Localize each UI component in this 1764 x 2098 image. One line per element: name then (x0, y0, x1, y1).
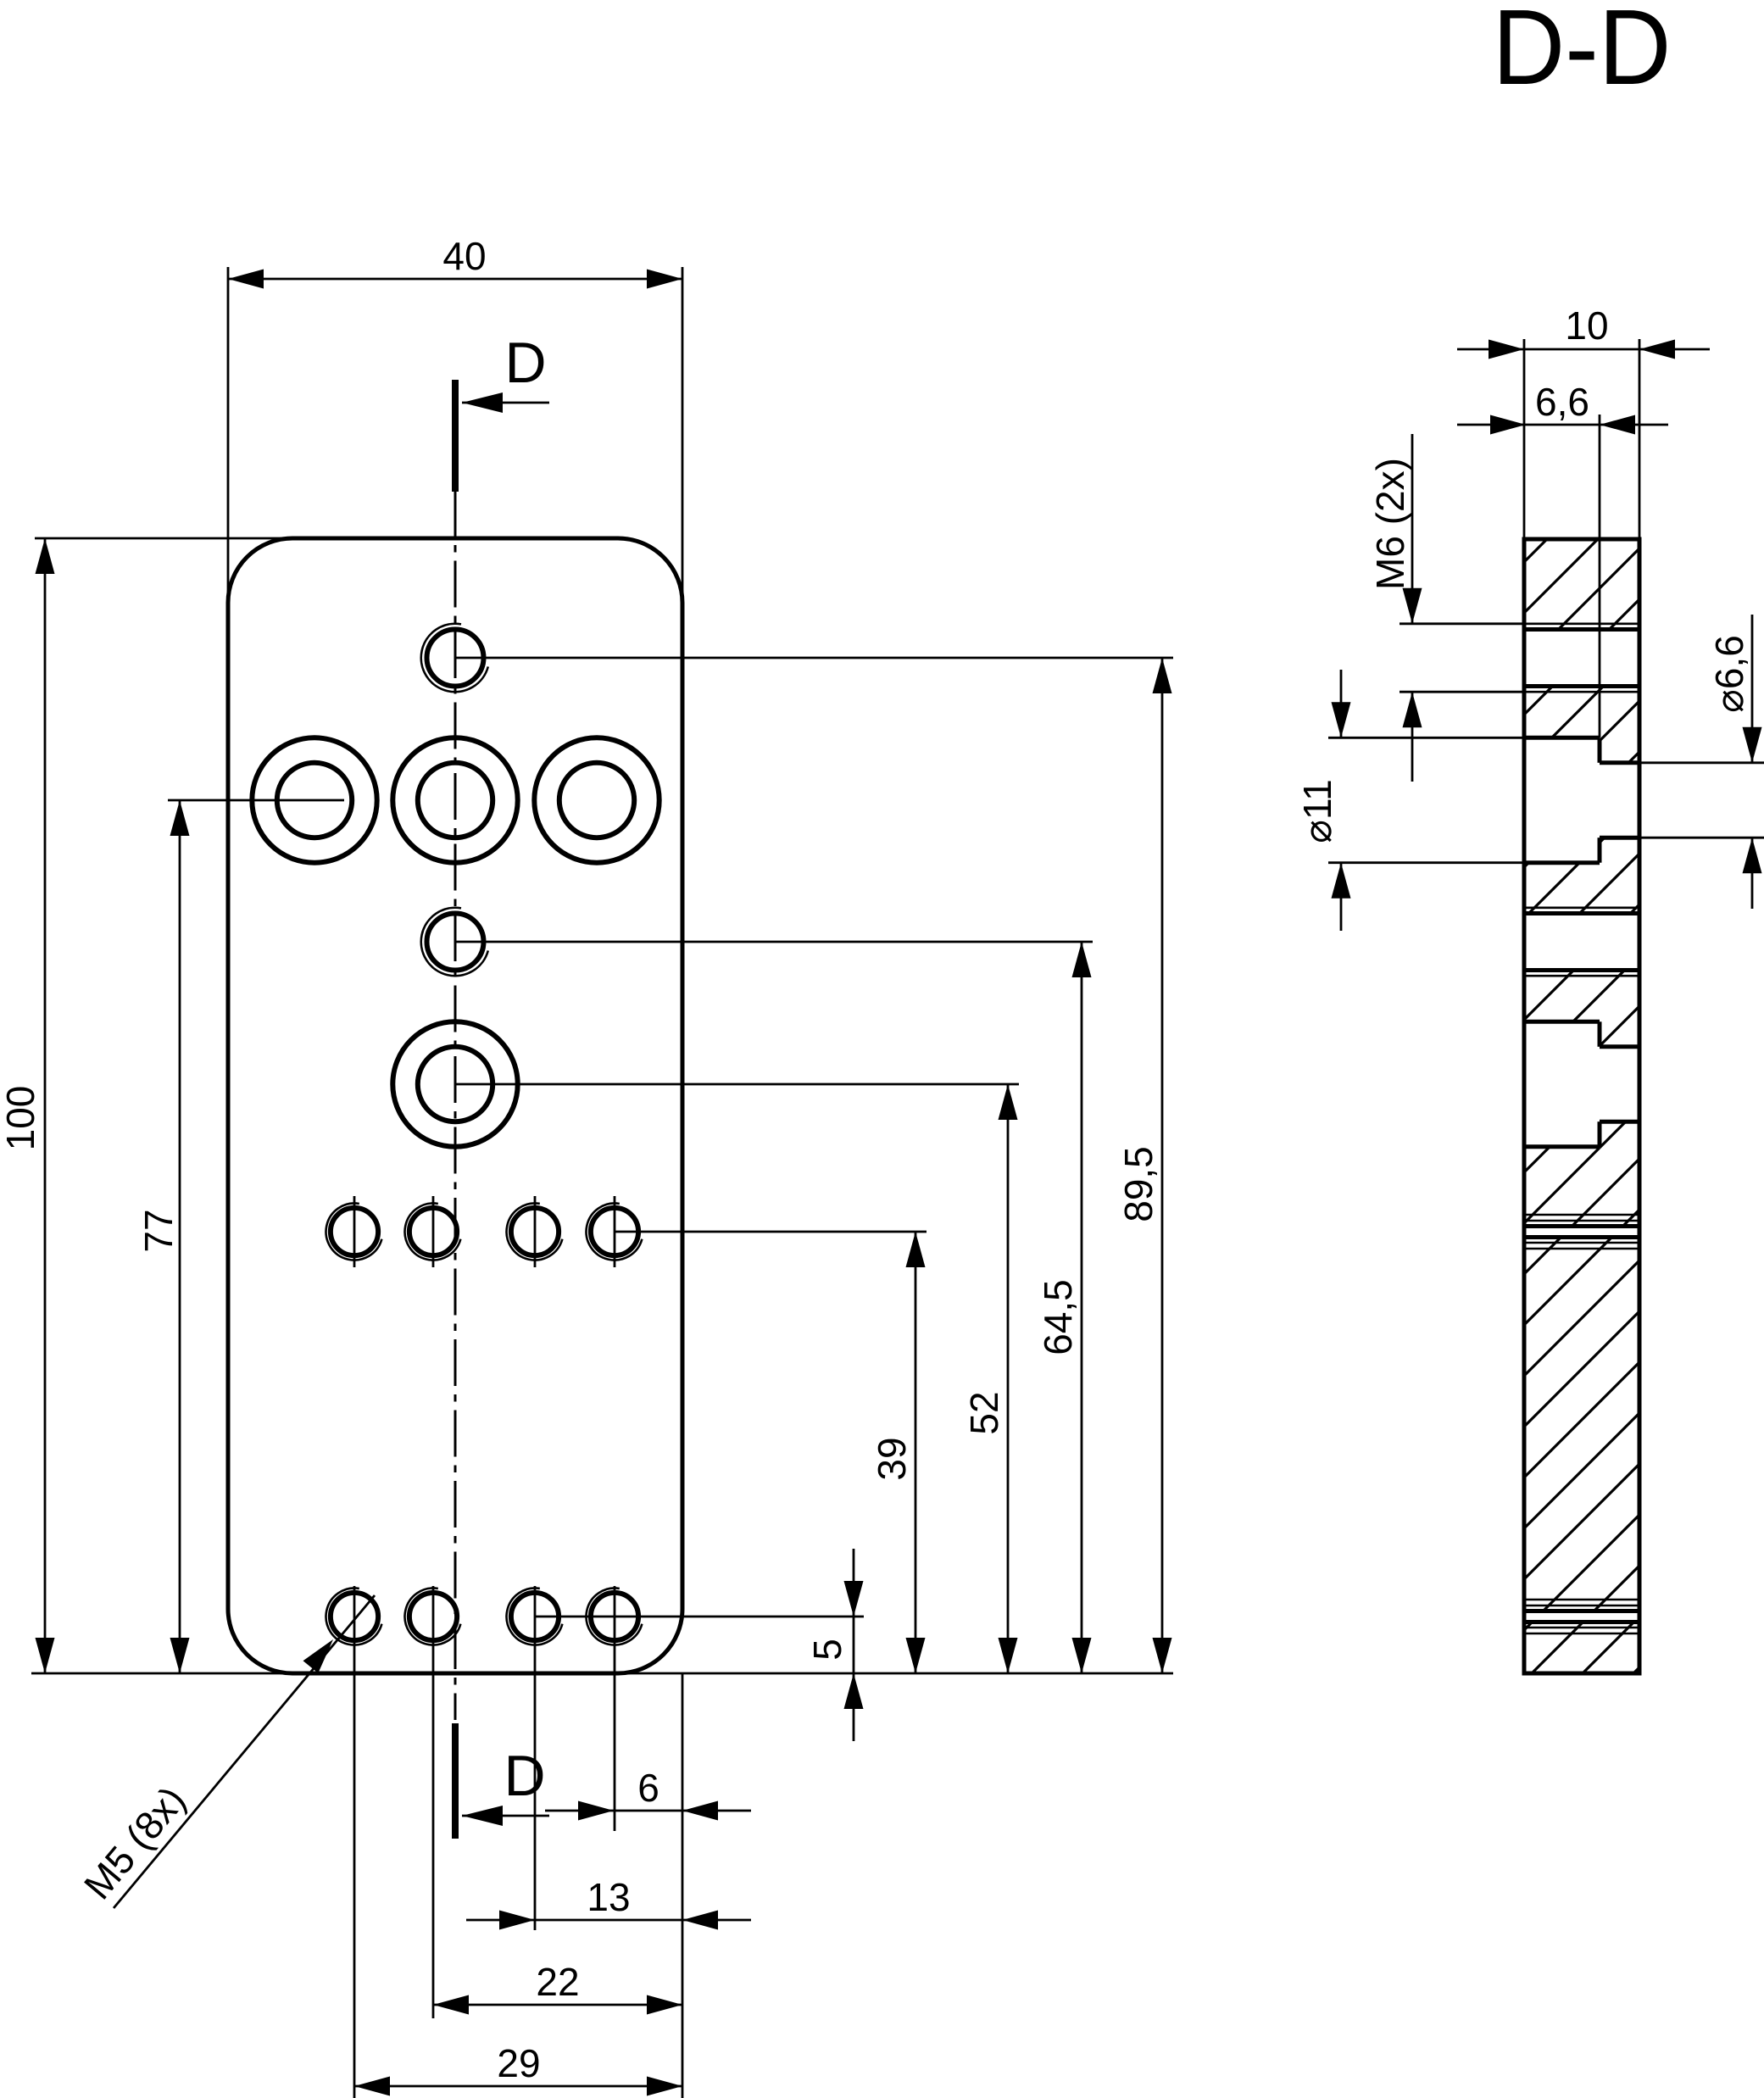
svg-text:6,6: 6,6 (1535, 380, 1589, 424)
svg-text:10: 10 (1565, 303, 1608, 348)
svg-text:77: 77 (136, 1209, 181, 1252)
svg-text:52: 52 (962, 1391, 1006, 1434)
svg-text:89,5: 89,5 (1116, 1146, 1160, 1222)
svg-text:39: 39 (870, 1437, 914, 1480)
svg-text:⌀11: ⌀11 (1295, 779, 1339, 843)
svg-text:40: 40 (442, 234, 486, 278)
svg-text:⌀6,6: ⌀6,6 (1707, 635, 1751, 713)
svg-text:64,5: 64,5 (1036, 1279, 1080, 1355)
svg-text:D-D: D-D (1493, 0, 1672, 107)
svg-text:D: D (504, 1744, 545, 1808)
svg-text:D: D (504, 331, 546, 395)
svg-text:5: 5 (805, 1639, 849, 1661)
svg-text:22: 22 (536, 1960, 579, 2004)
svg-text:100: 100 (0, 1086, 42, 1151)
svg-text:6: 6 (637, 1766, 659, 1810)
svg-text:M6 (2x): M6 (2x) (1368, 458, 1412, 590)
svg-text:29: 29 (497, 2041, 540, 2085)
svg-text:13: 13 (587, 1875, 630, 1919)
